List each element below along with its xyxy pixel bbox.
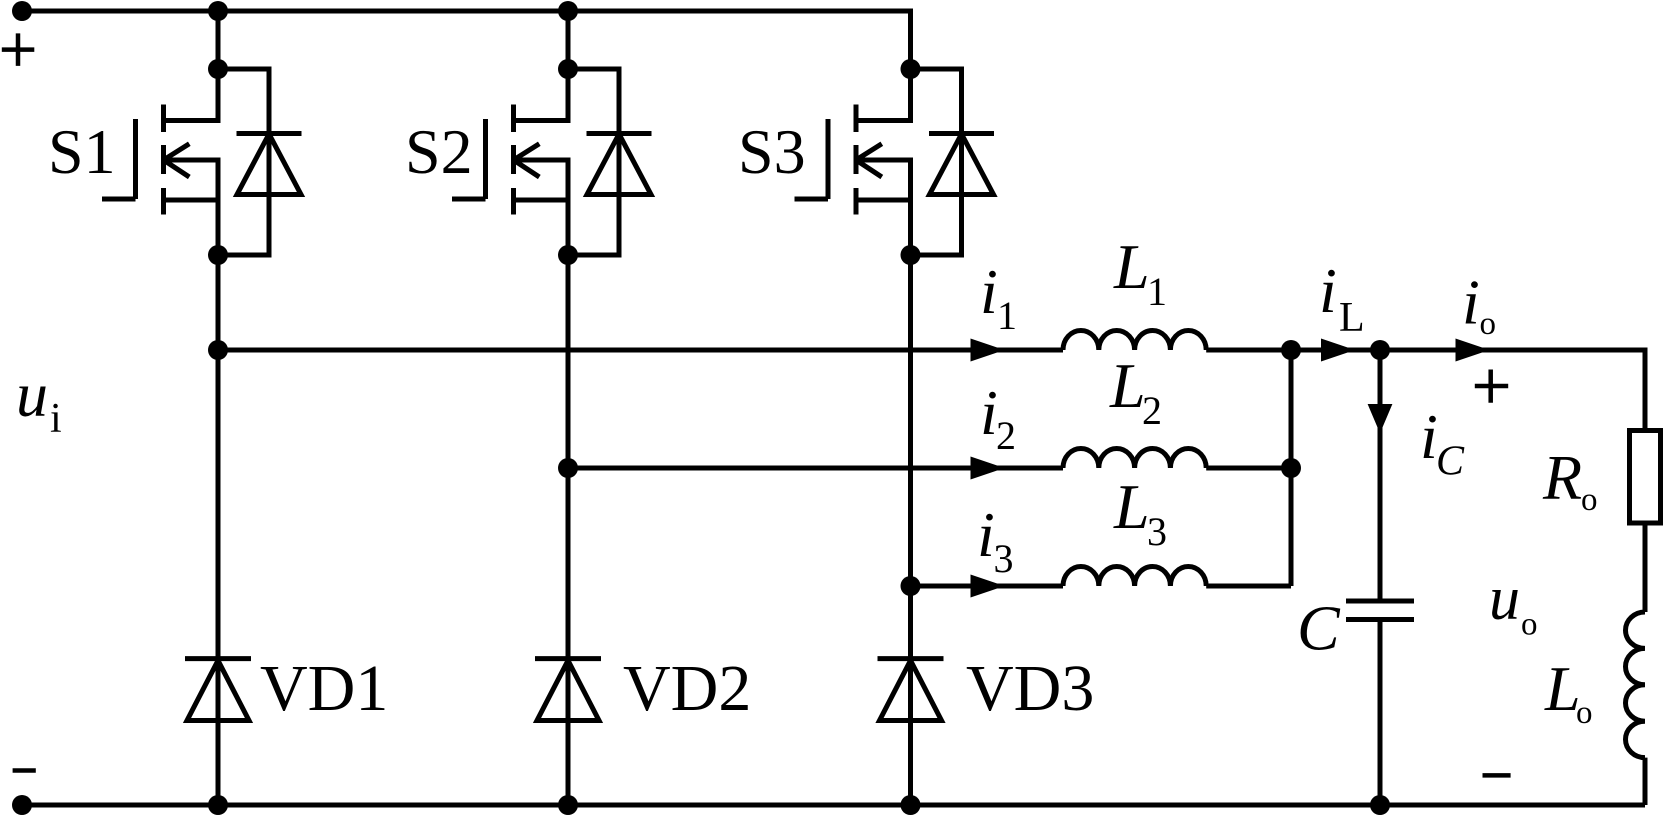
svg-text:i: i (977, 499, 995, 570)
svg-text:2: 2 (1142, 388, 1162, 433)
svg-text:R: R (1542, 442, 1582, 513)
svg-text:VD1: VD1 (260, 652, 388, 725)
svg-text:VD3: VD3 (966, 652, 1094, 725)
svg-text:o: o (1576, 695, 1593, 731)
svg-text:C: C (1297, 593, 1341, 664)
svg-text:C: C (1436, 439, 1465, 485)
svg-text:1: 1 (997, 293, 1017, 338)
svg-text:L: L (1339, 295, 1365, 341)
svg-text:L: L (1113, 471, 1150, 542)
svg-text:i: i (1319, 255, 1337, 326)
svg-text:L: L (1113, 231, 1150, 302)
svg-text:2: 2 (996, 413, 1016, 458)
svg-text:i: i (50, 396, 62, 442)
svg-text:i: i (980, 256, 998, 327)
svg-text:i: i (1462, 267, 1480, 338)
svg-text:o: o (1581, 482, 1598, 518)
svg-text:S2: S2 (405, 116, 473, 187)
svg-text:VD2: VD2 (623, 652, 751, 725)
svg-text:S1: S1 (48, 116, 116, 187)
svg-text:3: 3 (994, 536, 1014, 581)
svg-text:L: L (1109, 350, 1146, 421)
svg-text:S3: S3 (738, 116, 806, 187)
svg-text:1: 1 (1147, 269, 1167, 314)
svg-text:o: o (1521, 607, 1538, 643)
svg-text:u: u (16, 359, 48, 430)
svg-text:u: u (1489, 565, 1520, 633)
svg-text:3: 3 (1147, 509, 1167, 554)
svg-text:o: o (1480, 306, 1497, 342)
